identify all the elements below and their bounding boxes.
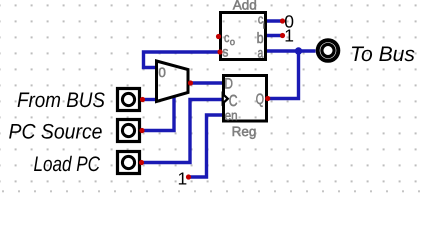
wire register Q up to output net [268,51,299,99]
register Reg [223,76,271,140]
wire Load PC pin to register C clock [142,100,223,163]
node junction on output net [295,47,302,54]
svg-text:Add: Add [233,0,257,12]
svg-text:From BUS: From BUS [17,89,105,112]
svg-text:0: 0 [158,65,166,80]
svg-text:o: o [230,37,235,48]
wire adder b to constant 1 [266,34,283,37]
wire From BUS pin to mux input 1 [143,98,158,101]
svg-text:Q: Q [256,91,264,108]
adder Add [216,0,266,60]
svg-text:PC Source: PC Source [9,121,103,144]
wire adder c_i to constant 0 [266,19,283,22]
wire mux output to register D [190,81,223,84]
wire adder a output to To Bus [266,49,316,52]
svg-text:D: D [224,76,233,93]
svg-text:a: a [258,45,264,61]
svg-text:Reg: Reg [232,124,257,139]
svg-text:To Bus: To Bus [350,43,415,66]
constant 0 (carry in) [280,11,294,31]
svg-text:en: en [225,108,238,123]
svg-text:Load PC: Load PC [34,153,101,176]
svg-text:1: 1 [178,169,188,189]
wire constant 1 to register en [189,115,223,177]
constant 1 (register enable) [178,169,192,189]
multiplexer MUX [157,61,194,102]
output pin To Bus [318,40,416,66]
svg-text:s: s [222,44,228,60]
input pin PC Source [9,120,145,144]
input pin From BUS [17,89,145,113]
constant 1 (b input) [280,26,294,46]
wire PC Source pin to mux select [142,96,174,131]
svg-text:1: 1 [284,26,294,46]
input pin Load PC [34,152,145,177]
wire s-output of adder to mux input 0 [144,52,221,68]
